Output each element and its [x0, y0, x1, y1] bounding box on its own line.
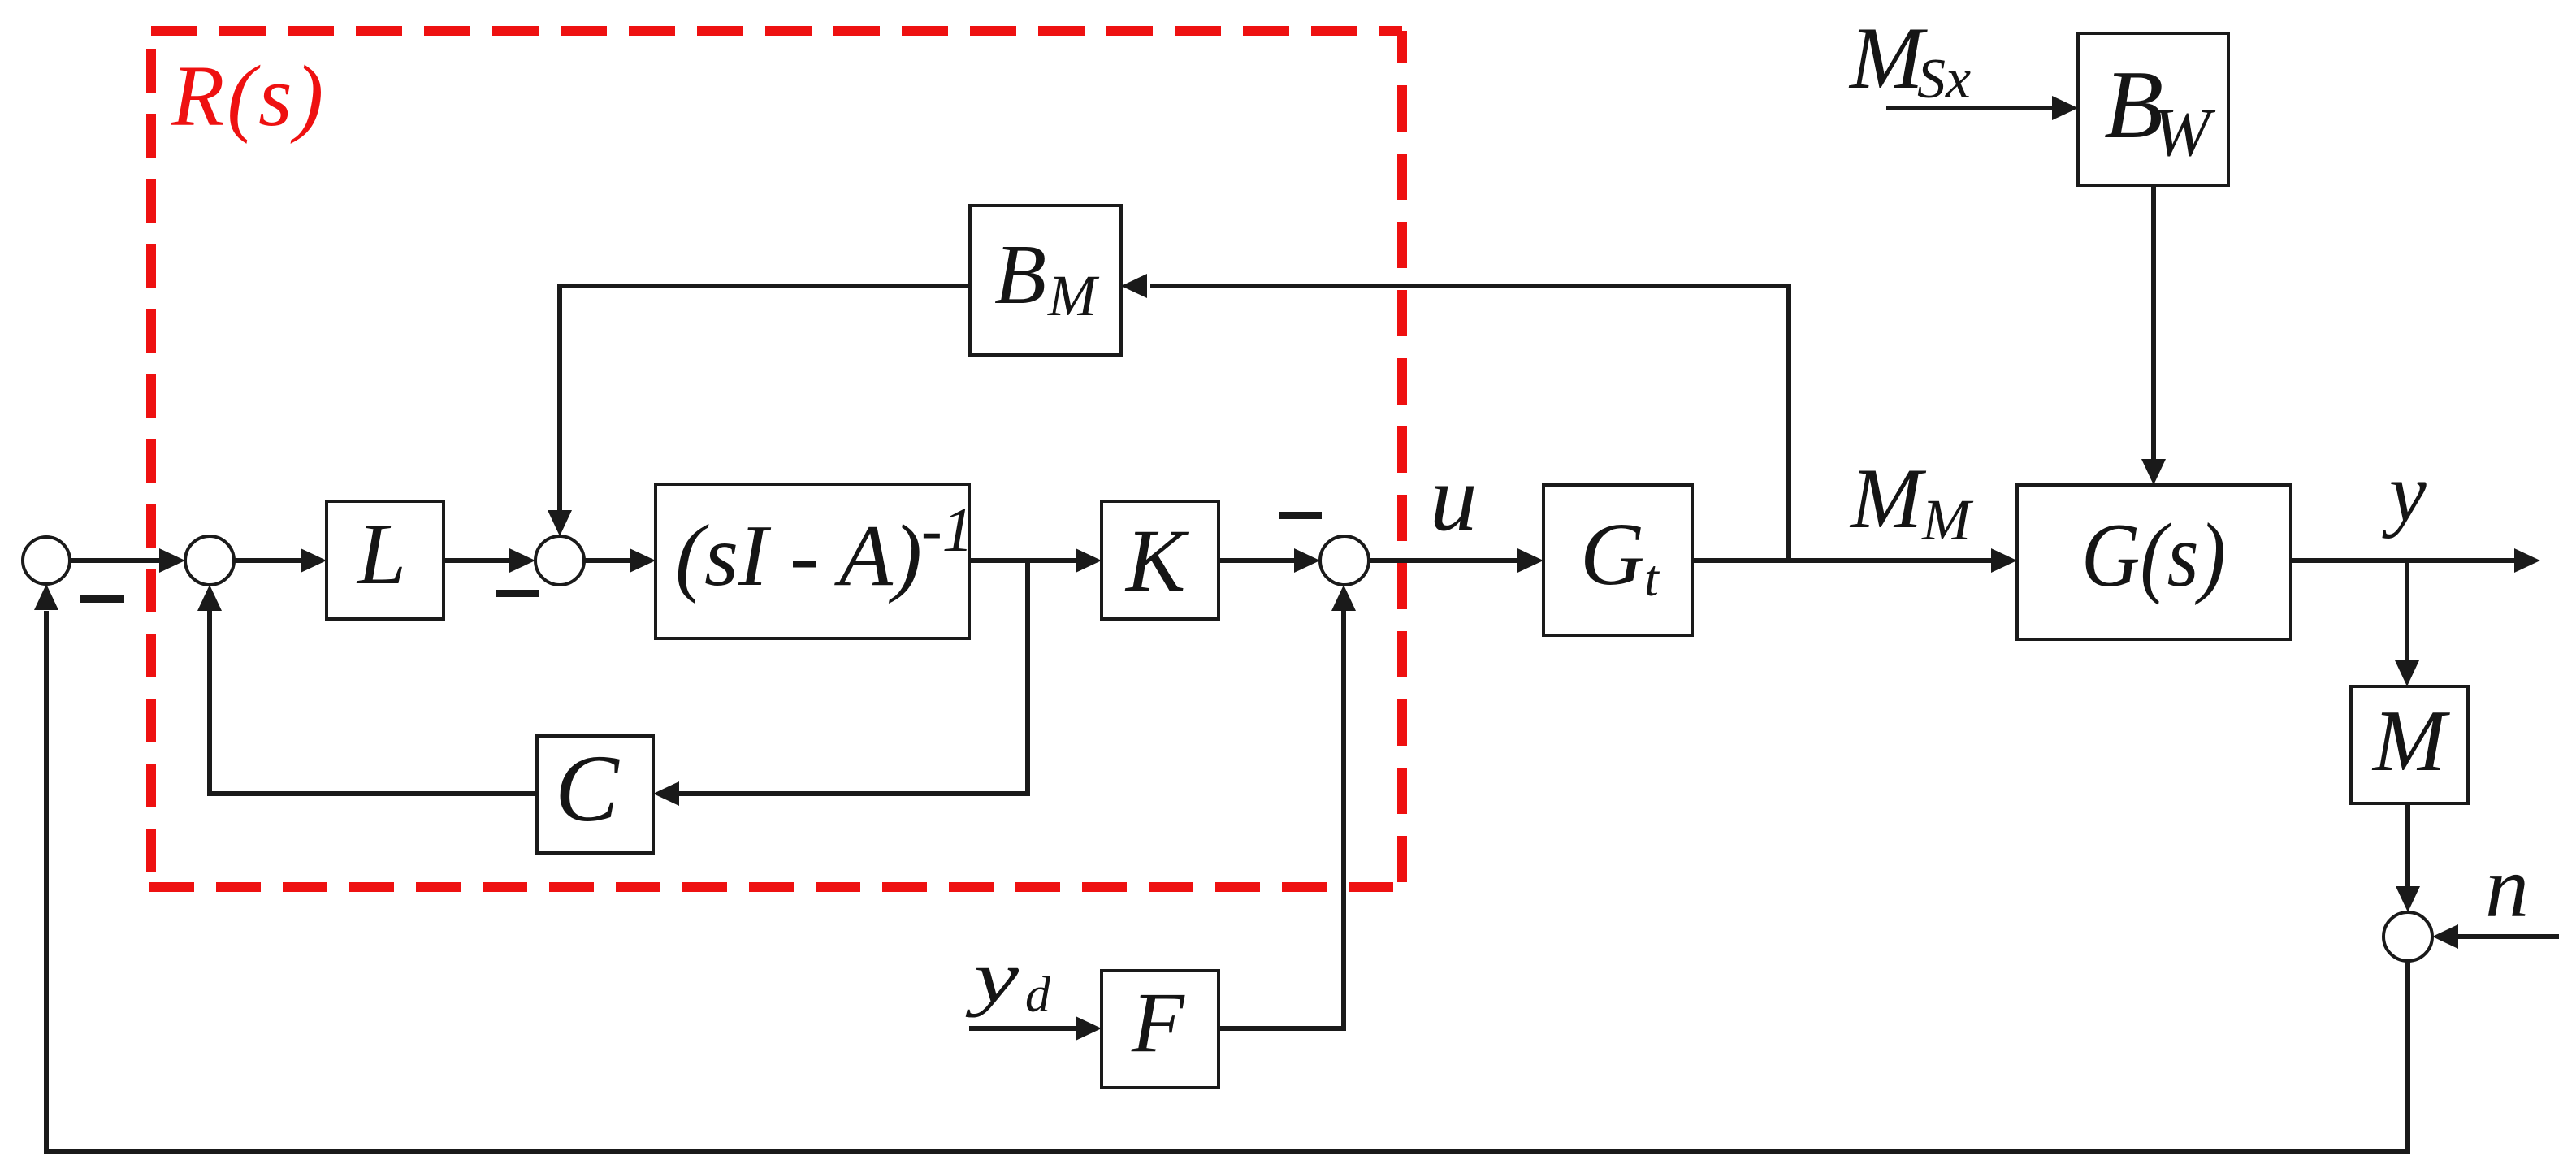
block C [537, 736, 653, 853]
svg-text:G(s): G(s) [2081, 505, 2226, 606]
svg-text:G: G [1580, 504, 1644, 604]
svg-text:C: C [555, 735, 620, 842]
arrowhead into L [301, 548, 327, 573]
arrowhead into S3 top [548, 510, 572, 536]
svg-text:M: M [1848, 9, 1928, 107]
minus sign at S4 [1279, 512, 1322, 519]
wire BW down to Gs top [2151, 185, 2156, 459]
wire yd input to F [969, 1026, 1080, 1031]
red dashed box R(s) bottom edge [149, 882, 1402, 892]
wire sIA to K [969, 558, 1080, 563]
block K [1102, 501, 1219, 619]
arrowhead into Gt [1517, 548, 1543, 573]
svg-text:Sx: Sx [1917, 48, 1971, 110]
svg-text:M: M [1921, 487, 1974, 552]
arrowhead into Gs [1991, 548, 2017, 573]
block Gt [1543, 485, 1692, 635]
svg-text:n: n [2485, 839, 2529, 936]
arrowhead into S3 [509, 548, 535, 573]
arrowhead into S4 [1294, 548, 1320, 573]
wire MSx input to BW [1886, 106, 2052, 110]
block BM [970, 206, 1121, 355]
arrowhead into F [1076, 1016, 1102, 1041]
svg-text:M: M [1047, 263, 1100, 328]
summing junction S5 [2383, 912, 2432, 961]
arrowhead into M top [2395, 660, 2419, 686]
svg-text:M: M [1849, 451, 1927, 546]
arrowhead into S2 [159, 548, 185, 573]
wire S1 to S2 [70, 558, 162, 563]
summing junction S2 [185, 536, 234, 585]
red dashed box R(s) top edge [151, 26, 1402, 36]
minus sign at S3 [496, 590, 539, 597]
red dashed box R(s) right edge [1397, 31, 1407, 887]
arrowhead into S5 right [2432, 924, 2458, 949]
svg-text:(sI - A): (sI - A) [675, 508, 922, 604]
arrowhead into K [1076, 548, 1102, 573]
wire Gt to Gs [1692, 558, 1997, 563]
wire C out to S2 bottom [210, 611, 537, 794]
red dashed box R(s) left edge [146, 31, 156, 887]
wire y branch down to M [2405, 561, 2409, 660]
wire S2 to L [234, 558, 305, 563]
svg-text:L: L [356, 506, 406, 603]
wire Gs to output y [2291, 558, 2518, 563]
block F [1102, 971, 1219, 1088]
arrowhead into BM right [1121, 274, 1147, 298]
arrowhead into sIA [630, 548, 656, 573]
svg-text:u: u [1430, 446, 1478, 551]
block M [2351, 686, 2468, 803]
arrowhead into C right [653, 781, 679, 806]
block Gs [2017, 485, 2291, 639]
block BW [2078, 33, 2228, 185]
block L [327, 501, 444, 619]
wire BM out to S3 top [560, 286, 970, 517]
arrowhead into BW [2052, 96, 2078, 120]
minus sign at S1 [80, 595, 124, 603]
arrowhead into S1 bottom [34, 584, 58, 610]
summing junction S3 [535, 536, 584, 585]
summing junction S4 [1320, 536, 1369, 585]
svg-text:K: K [1124, 511, 1190, 610]
wire junction up to BM feedback [1150, 286, 1789, 561]
arrowhead into S4 bottom [1331, 585, 1356, 611]
wire M down to S5 [2405, 803, 2410, 886]
svg-text:y: y [2382, 447, 2427, 539]
wire junction down to C input [678, 561, 1028, 794]
svg-text:F: F [1131, 975, 1185, 1070]
wire L to S3 [444, 558, 514, 563]
block (sI-A)^-1 [656, 484, 969, 638]
arrowhead output y [2514, 548, 2540, 573]
summing junction S1 [23, 537, 70, 584]
svg-text:-1: -1 [921, 495, 973, 565]
wire S4 to Gt [1369, 558, 1522, 563]
arrowhead into S5 top [2396, 886, 2420, 912]
svg-text:t: t [1644, 549, 1660, 607]
arrowhead into Gs top [2141, 459, 2166, 485]
wire F out to S4 bottom [1219, 611, 1344, 1028]
svg-text:B: B [994, 227, 1046, 322]
svg-text:M: M [2371, 693, 2450, 790]
svg-text:R(s): R(s) [171, 49, 326, 145]
svg-text:W: W [2153, 94, 2216, 171]
wire S3 to sIA [584, 558, 634, 563]
wire n input to S5 [2458, 934, 2559, 939]
wire S5 down and feedback to S1 [46, 611, 2408, 1151]
svg-text:d: d [1025, 967, 1051, 1023]
arrowhead into S2 bottom [197, 585, 222, 611]
wire K to S4 [1219, 558, 1299, 563]
